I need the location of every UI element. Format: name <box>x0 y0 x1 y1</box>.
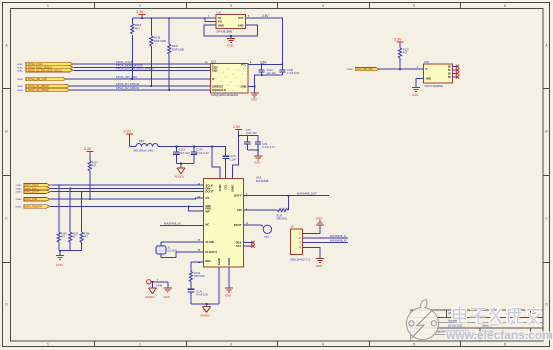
capacitor C104 <box>259 64 277 75</box>
svg-text:AVDD: AVDD <box>219 184 222 191</box>
watermark logo bubble <box>407 300 439 340</box>
wire J2 pin1 to GND up <box>302 225 320 234</box>
watermark chinese characters <box>453 306 541 325</box>
svg-text:3.3V: 3.3V <box>394 37 402 41</box>
capacitor C176 on REF <box>187 289 208 304</box>
svg-text:XDAC: XDAC <box>17 63 23 66</box>
ground GND decoupling <box>254 156 262 165</box>
buffer U20 <box>417 60 453 88</box>
wire DAC_DOUT <box>50 191 203 193</box>
svg-text:DNP 100K: DNP 100K <box>172 48 184 52</box>
svg-text:CLKIN: CLKIN <box>205 240 214 244</box>
svg-text:1: 1 <box>47 343 49 347</box>
wire GND loop U11 <box>204 25 257 36</box>
svg-text:74LVC1G04SE: 74LVC1G04SE <box>424 84 443 88</box>
svg-text:VCC: VCC <box>241 63 247 67</box>
svg-text:3.3V: 3.3V <box>136 10 144 14</box>
crystal X1 <box>156 240 203 258</box>
wire DAC_RESET <box>50 206 203 211</box>
svg-text:AGND2: AGND2 <box>145 295 155 299</box>
svg-text:R137: R137 <box>172 44 179 48</box>
svg-text:GND: GND <box>316 264 322 268</box>
svg-text:2.8V: 2.8V <box>262 14 269 18</box>
svg-text:GND: GND <box>254 161 260 165</box>
svg-text:DOUT: DOUT <box>205 190 213 194</box>
svg-text:GND: GND <box>238 23 244 27</box>
svg-text:CS: CS <box>205 196 209 200</box>
svg-text:DNP 100K: DNP 100K <box>154 39 166 43</box>
svg-text:OUT: OUT <box>238 16 244 20</box>
svg-text:TP4: TP4 <box>264 235 269 239</box>
svg-text:U20: U20 <box>424 60 430 64</box>
net flag DAC_SCLK <box>16 184 51 188</box>
ground GND U20 <box>412 88 420 98</box>
svg-text:FPGA_D1_MISO#: FPGA_D1_MISO# <box>28 85 49 88</box>
svg-text:GND: GND <box>426 78 432 81</box>
wire EN jog <box>205 18 216 21</box>
svg-text:MAX5498_OUT: MAX5498_OUT <box>297 191 317 195</box>
resistor R137 <box>168 18 185 90</box>
svg-text:XDAC: XDAC <box>17 78 23 81</box>
svg-text:FPGA_D0_DIN_MISO_MISO1: FPGA_D0_DIN_MISO_MISO1 <box>28 69 63 72</box>
svg-text:4: 4 <box>322 343 324 347</box>
svg-text:4K7: 4K7 <box>61 236 66 239</box>
svg-text:R136: R136 <box>154 36 161 40</box>
wire decoupling loop bottom <box>247 150 258 156</box>
svg-text:1: 1 <box>47 4 49 8</box>
svg-text:GND: GND <box>225 294 231 298</box>
svg-text:N25Q128A13ESE40F: N25Q128A13ESE40F <box>211 93 239 97</box>
resistor R134 on REF <box>189 262 205 289</box>
net flag FPGA_D0_DIN_MISO_MISO1 <box>17 69 73 73</box>
svg-text:5: 5 <box>413 4 415 8</box>
wire J2 pin3 net <box>302 238 348 242</box>
resistor R136 <box>150 18 167 86</box>
svg-text:3: 3 <box>230 4 232 8</box>
resistor R118 pullup <box>398 44 409 69</box>
svg-text:SPX3819M5: SPX3819M5 <box>217 30 233 34</box>
svg-text:SSQ-104-02-T_S: SSQ-104-02-T_S <box>290 257 310 261</box>
svg-text:0.1uF: 0.1uF <box>230 158 237 161</box>
svg-text:DAC_SPI_DIS: DAC_SPI_DIS <box>357 68 374 71</box>
power 2.5V for ENBG <box>233 125 257 135</box>
wire DAC_DIN <box>50 188 203 190</box>
capacitor C105 <box>279 64 299 75</box>
svg-text:0R0 0402: 0R0 0402 <box>194 275 205 278</box>
net flag FPGA_CCLK <box>17 62 73 66</box>
svg-text:4.7uF 6.3V: 4.7uF 6.3V <box>196 152 209 155</box>
svg-text:DQ3/HOLD: DQ3/HOLD <box>212 88 226 92</box>
svg-text:4K7: 4K7 <box>403 52 408 55</box>
ferrite bead FB1 <box>133 139 158 153</box>
wire FPGA_MOSI <box>73 66 210 68</box>
svg-text:3.3V: 3.3V <box>124 130 132 134</box>
svg-text:4: 4 <box>322 4 324 8</box>
flash memory U12 <box>205 59 252 97</box>
net flag FPGA_D1_MISO1 <box>17 84 70 88</box>
wire AGND bottom bus <box>191 267 219 306</box>
net flag FPGA_SPI_CS <box>17 77 66 81</box>
wire U11 OUT to 2.8V rail <box>245 14 282 65</box>
svg-text:GND: GND <box>164 295 170 299</box>
svg-text:DGND: DGND <box>228 258 231 266</box>
svg-text:FPGA_SPI_CS#: FPGA_SPI_CS# <box>28 78 47 81</box>
svg-text:XDAC: XDAC <box>16 188 22 191</box>
resistor R141 pulldown <box>69 189 79 251</box>
svg-text:4.7uF 6.3V: 4.7uF 6.3V <box>287 72 300 75</box>
svg-text:FB1: FB1 <box>139 139 144 143</box>
svg-text:DAC_CS#: DAC_CS# <box>26 198 38 201</box>
ground GND under U11 <box>227 36 235 48</box>
no connect X pins SDA SCL <box>244 241 255 248</box>
svg-text:TBD, 300mA, 0402: TBD, 300mA, 0402 <box>133 150 154 153</box>
svg-text:J2: J2 <box>291 225 294 229</box>
ground GND net tie <box>164 288 173 299</box>
ground GND under flash <box>250 93 258 102</box>
wire ENBG branch <box>233 132 239 179</box>
ground AGND filter <box>175 168 186 179</box>
power 3.3V pullup DAC_CS <box>84 147 93 154</box>
svg-text:XDAC: XDAC <box>16 191 22 194</box>
svg-text:R116: R116 <box>135 23 142 27</box>
wire cap bottoms to GND <box>248 75 282 93</box>
svg-text:FPGA_D2_MISO2: FPGA_D2_MISO2 <box>116 86 139 90</box>
svg-text:CAL: CAL <box>225 184 228 190</box>
watermark url text <box>445 328 553 342</box>
ground GND DGND <box>225 288 233 298</box>
svg-text:GND: GND <box>218 23 224 27</box>
svg-text:AGND2: AGND2 <box>175 175 185 179</box>
svg-text:4.7uF 6.3V: 4.7uF 6.3V <box>196 293 208 296</box>
net flag DAC_SPI_DIS <box>347 67 379 71</box>
svg-text:3.3V: 3.3V <box>84 147 92 151</box>
regulator U11 <box>208 11 250 34</box>
capacitor C96 <box>255 140 275 150</box>
ground GND down J2 <box>316 258 324 268</box>
wire decoupling loop top <box>239 136 259 140</box>
svg-text:GND: GND <box>316 216 322 220</box>
svg-text:XDAC: XDAC <box>17 85 23 88</box>
svg-text:2: 2 <box>139 4 141 8</box>
svg-text:5: 5 <box>413 343 415 347</box>
svg-text:GND: GND <box>412 93 418 97</box>
capacitor C173 <box>173 146 190 163</box>
svg-text:OUTY: OUTY <box>234 194 242 198</box>
svg-text:DQ1: DQ1 <box>212 69 218 73</box>
wire FPGA_SPI_CS <box>66 78 210 80</box>
wire VCC 2.8V rail <box>248 60 282 64</box>
ground AGND main <box>200 307 211 318</box>
svg-text:MAX5498_H: MAX5498_H <box>330 234 346 238</box>
svg-text:GND: GND <box>227 44 235 48</box>
no connect X pins U20 <box>453 65 460 79</box>
svg-text:GND: GND <box>251 98 259 102</box>
wire DAC_SCLK <box>50 184 203 186</box>
wire J2 pin4 to GND down <box>302 247 320 258</box>
wire NC shutdown <box>160 221 203 225</box>
power 3.3V pullup U20 <box>394 37 404 44</box>
svg-text:10nF 16V: 10nF 16V <box>246 132 257 135</box>
net tie NT1 <box>147 280 168 288</box>
svg-text:GND: GND <box>241 85 247 89</box>
digital pot U19 MAX5498 <box>198 176 269 268</box>
svg-text:FBI: FBI <box>237 208 242 212</box>
junction dots on bus <box>131 78 170 91</box>
svg-text:FPGA_D2_MISO2: FPGA_D2_MISO2 <box>28 89 49 92</box>
wire FPGA_D1 <box>70 85 210 87</box>
net flag DAC_DOUT <box>16 190 51 194</box>
junction dots on rail <box>141 17 206 19</box>
svg-text:U11: U11 <box>217 11 222 15</box>
svg-text:10nF 16V: 10nF 16V <box>179 152 190 155</box>
capacitor C175 on CAL <box>222 146 236 178</box>
svg-text:DAC_DOUT: DAC_DOUT <box>26 191 40 194</box>
svg-text:ENBG: ENBG <box>232 184 235 191</box>
wire AVDD rail <box>158 145 226 147</box>
power 3.3V analog filter <box>124 130 133 137</box>
resistor R116 <box>131 18 142 79</box>
svg-text:EC-2520: EC-2520 <box>168 249 178 252</box>
svg-text:GND: GND <box>56 263 64 267</box>
svg-text:www.elecfans.com: www.elecfans.com <box>445 328 553 342</box>
svg-text:POUT: POUT <box>234 223 242 227</box>
resistor R142 pulldown <box>80 192 90 251</box>
svg-text:EN: EN <box>218 20 222 24</box>
svg-text:3: 3 <box>230 343 232 347</box>
svg-text:4K7: 4K7 <box>135 27 140 31</box>
svg-text:FPGA_D0_DIN_MISO_MISO1: FPGA_D0_DIN_MISO_MISO1 <box>116 67 155 71</box>
wire FPGA_CCLK <box>73 63 210 65</box>
svg-text:XDAC: XDAC <box>17 89 23 92</box>
wire DGND <box>228 267 230 288</box>
wire flag to U20 <box>379 68 423 70</box>
net flag FPGA_MOSI_MISO0 <box>17 66 73 70</box>
connector J2 <box>290 225 310 262</box>
wire AVDD pin branch <box>212 146 220 178</box>
svg-text:26-Oct-2011: 26-Oct-2011 <box>448 324 463 328</box>
wire U20 GND <box>416 79 424 88</box>
net flag DAC_RESET <box>16 205 51 209</box>
wire to ferrite <box>128 136 130 146</box>
wire FPGA_D0 <box>73 69 210 71</box>
svg-text:S/RESET: S/RESET <box>212 84 224 88</box>
svg-text:0R0 0402: 0R0 0402 <box>277 218 288 221</box>
svg-text:NC: NC <box>205 223 209 227</box>
svg-text:MAX5498: MAX5498 <box>256 179 269 183</box>
svg-text:XDAC: XDAC <box>347 68 353 71</box>
svg-text:DAC_RESET#: DAC_RESET# <box>26 205 43 208</box>
svg-text:0.1uF 4.7V: 0.1uF 4.7V <box>263 146 276 149</box>
svg-text:IN: IN <box>218 16 221 20</box>
net flag DAC_DIN <box>16 187 51 191</box>
wire J2 pin2 net <box>302 234 348 238</box>
wire FPGA_D2 <box>70 89 210 91</box>
svg-text:SCL: SCL <box>236 244 242 248</box>
wire DAC_CS <box>50 198 203 199</box>
resistor R135 feedback <box>244 196 289 221</box>
svg-text:2.5V: 2.5V <box>233 125 241 129</box>
svg-text:6: 6 <box>504 4 506 8</box>
svg-text:WP: WP <box>205 209 210 213</box>
net flag DAC_CS <box>16 198 51 202</box>
svg-text:2: 2 <box>139 343 141 347</box>
svg-text:6: 6 <box>504 343 506 347</box>
svg-text:D: D <box>426 68 428 71</box>
resistor R140 pulldown <box>57 185 67 251</box>
wire pulldown common <box>59 251 82 256</box>
svg-text:4K7: 4K7 <box>92 165 97 168</box>
ground GND up J2 <box>316 216 324 225</box>
svg-text:MAX5498_W: MAX5498_W <box>330 238 347 242</box>
svg-text:XDAC: XDAC <box>17 69 23 72</box>
svg-text:4K7: 4K7 <box>72 236 77 239</box>
test point TP4 on POUT <box>244 225 272 239</box>
svg-text:CLKOUT: CLKOUT <box>205 250 217 254</box>
svg-text:4K7: 4K7 <box>84 236 89 239</box>
wire REF <box>191 261 204 263</box>
capacitor C174 <box>191 146 209 163</box>
svg-text:REF: REF <box>205 259 211 263</box>
svg-text:XDAC: XDAC <box>16 198 22 201</box>
power 3.3V rail top <box>136 10 146 18</box>
wire filter caps bottom <box>176 164 194 168</box>
resistor R117 pullup <box>88 154 98 200</box>
svg-text:AGND: AGND <box>218 258 221 266</box>
svg-text:MAX5498_IN: MAX5498_IN <box>164 221 181 225</box>
svg-text:XDAC: XDAC <box>16 184 22 187</box>
wire 3.3V rail <box>132 17 216 19</box>
wire OUTY net <box>244 191 329 196</box>
ground GND pulldowns <box>56 256 64 268</box>
svg-text:AGND2: AGND2 <box>200 314 210 318</box>
title block <box>411 310 543 341</box>
svg-text:XDAC: XDAC <box>17 66 23 69</box>
capacitor C76 <box>244 136 250 150</box>
net flag FPGA_D2_MISO2 <box>17 88 70 92</box>
svg-text:XDAC: XDAC <box>16 205 22 208</box>
svg-text:NT4B: NT4B <box>156 285 163 288</box>
ground AGND net tie <box>145 288 156 299</box>
svg-text:FPGA_SPI_CS#: FPGA_SPI_CS# <box>116 75 137 79</box>
